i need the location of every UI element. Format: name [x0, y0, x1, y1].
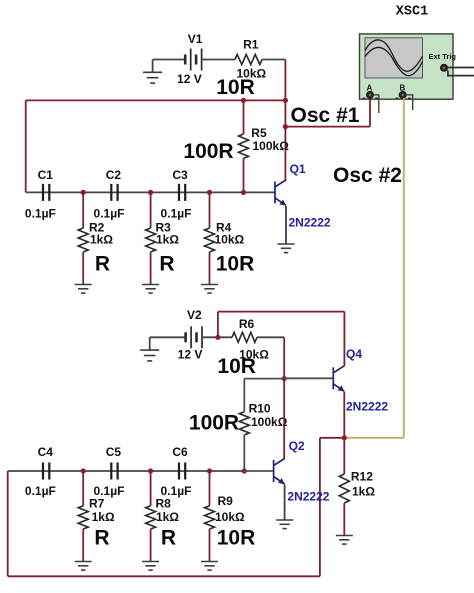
junction C4/R7	[81, 468, 86, 473]
svg-text:10R: 10R	[217, 355, 256, 378]
svg-text:10kΩ: 10kΩ	[215, 510, 245, 524]
svg-text:1kΩ: 1kΩ	[156, 510, 179, 524]
svg-text:100kΩ: 100kΩ	[251, 415, 288, 429]
wire battery V2 to R6	[202, 336, 232, 338]
wire capacitor row oscillator 2	[8, 470, 245, 472]
junction C6/R9	[207, 468, 212, 473]
pin A minus stub	[373, 95, 379, 113]
svg-text:R9: R9	[218, 494, 234, 508]
svg-text:12 V: 12 V	[178, 348, 203, 362]
svg-text:2N2222: 2N2222	[346, 400, 388, 414]
svg-text:10kΩ: 10kΩ	[215, 233, 245, 247]
wire Q4 base	[284, 377, 333, 379]
wire V2 ground to battery	[150, 336, 186, 338]
junction rail / R5	[241, 98, 246, 103]
junction Q4 emitter / R12 / feedback	[342, 435, 347, 440]
junction C5/R8	[148, 468, 153, 473]
resistor R2	[82, 192, 84, 228]
battery V1	[185, 49, 201, 71]
svg-text:Osc #2: Osc #2	[333, 164, 402, 187]
svg-text:R5: R5	[251, 126, 267, 140]
svg-text:C1: C1	[38, 168, 54, 182]
svg-text:1kΩ: 1kΩ	[156, 233, 179, 247]
resistor R9	[209, 471, 211, 506]
terminal Ext Trig	[441, 64, 448, 71]
resistor R10	[243, 379, 245, 412]
wire R6 drop to base node	[283, 337, 285, 378]
ground symbol for V2	[140, 350, 159, 361]
wire emitter node to feedback corner	[320, 437, 344, 439]
svg-text:0.1µF: 0.1µF	[25, 207, 56, 221]
scope trace B	[365, 47, 423, 75]
scope trace A	[365, 40, 423, 71]
junction R10/Q2 base	[242, 468, 247, 473]
junction rail / collector column	[283, 98, 288, 103]
junction C1/R2	[81, 190, 86, 195]
wire Q1 base	[244, 191, 276, 193]
capacitor C4	[43, 463, 49, 480]
svg-text:R10: R10	[249, 402, 271, 416]
svg-text:100kΩ: 100kΩ	[253, 139, 290, 153]
svg-text:R8: R8	[156, 497, 172, 511]
ground battery V1	[152, 60, 154, 73]
resistor R8	[150, 471, 152, 506]
resistor R12	[343, 438, 345, 474]
svg-text:C5: C5	[106, 445, 122, 459]
pin B minus stub	[406, 95, 413, 110]
wire feedback left vertical oscillator 2	[7, 471, 9, 576]
pin ext trig plus	[448, 67, 474, 69]
svg-text:Q4: Q4	[346, 347, 362, 361]
resistor R5	[243, 100, 245, 134]
wire Q4 emitter drop	[343, 392, 345, 438]
wire rail2 riser	[217, 312, 219, 338]
capacitor C2	[111, 184, 117, 201]
wire scope B orange drop	[403, 98, 405, 438]
svg-text:100R: 100R	[183, 140, 233, 163]
svg-text:0.1µF: 0.1µF	[25, 484, 56, 498]
svg-text:C4: C4	[38, 445, 54, 459]
svg-text:R1: R1	[243, 38, 259, 52]
resistor R4	[209, 192, 211, 228]
svg-text:C3: C3	[172, 168, 188, 182]
svg-text:Osc #1: Osc #1	[291, 104, 360, 127]
svg-text:12 V: 12 V	[177, 72, 202, 86]
transistor Q2	[274, 459, 285, 485]
battery V2	[186, 326, 202, 348]
ground symbol for V1	[143, 72, 162, 83]
svg-text:R7: R7	[89, 497, 105, 511]
resistor R1	[235, 55, 262, 65]
svg-text:1kΩ: 1kΩ	[352, 485, 375, 499]
svg-text:2N2222: 2N2222	[289, 216, 331, 230]
svg-text:R: R	[95, 253, 110, 276]
transistor Q1	[275, 180, 286, 206]
ground R9	[201, 562, 218, 571]
ground R8	[142, 562, 159, 571]
svg-text:0.1µF: 0.1µF	[94, 207, 125, 221]
wire feedback vertical oscillator 2	[319, 438, 321, 577]
wire Q4 collector drop	[343, 312, 345, 366]
capacitor C3	[179, 184, 185, 201]
oscilloscope XSC1	[360, 34, 474, 113]
svg-text:10R: 10R	[216, 253, 255, 276]
wire V+ feedback rail oscillator 1	[26, 99, 286, 101]
ground R7	[75, 562, 92, 571]
capacitor C5	[111, 463, 117, 480]
svg-text:0.1µF: 0.1µF	[161, 207, 192, 221]
tiny plus minus marks B	[396, 97, 399, 99]
wire base node to R10	[244, 378, 284, 380]
wire V+ rail oscillator 2	[218, 311, 345, 313]
svg-text:R: R	[94, 527, 109, 550]
svg-text:V2: V2	[187, 308, 202, 322]
svg-text:R: R	[159, 253, 174, 276]
transistor Q4	[333, 366, 344, 392]
resistor R3	[150, 192, 152, 228]
wire Q2 emitter to ground	[284, 485, 286, 521]
junction base node Q4	[282, 376, 287, 381]
wire capacitor row oscillator 1	[26, 191, 244, 193]
terminal A	[367, 92, 374, 99]
junction Q4 emitter node top copy	[342, 435, 347, 440]
svg-text:V1: V1	[188, 32, 203, 46]
ground R3	[142, 285, 159, 294]
svg-text:10R: 10R	[216, 76, 255, 99]
capacitor C6	[179, 463, 185, 480]
ground Q1 emitter	[278, 244, 295, 253]
svg-text:C2: C2	[106, 168, 122, 182]
junction V2+/rail2	[215, 335, 220, 340]
wire battery V1 to R1	[202, 59, 235, 61]
ground Q2 emitter	[276, 520, 293, 529]
svg-text:R: R	[161, 527, 176, 550]
svg-text:Ext Trig: Ext Trig	[429, 52, 457, 61]
svg-text:Q2: Q2	[289, 439, 305, 453]
ground battery V2	[149, 337, 151, 350]
resistor R7	[82, 471, 84, 506]
wire V1 ground to battery	[153, 59, 186, 61]
wire feedback bottom rail oscillator 2	[8, 575, 320, 577]
svg-text:XSC1: XSC1	[396, 5, 428, 20]
junction Osc #1 tap	[283, 124, 288, 129]
terminal B	[399, 92, 406, 99]
ground R2	[75, 285, 92, 294]
wire Osc #1 tap to scope A	[285, 126, 370, 128]
svg-text:2N2222: 2N2222	[287, 490, 329, 504]
ground R12	[336, 536, 353, 545]
wire collector column vertical	[284, 60, 286, 181]
svg-text:R6: R6	[239, 317, 255, 331]
svg-text:100R: 100R	[189, 412, 239, 435]
junction C3/R4	[207, 190, 212, 195]
ground R4	[201, 285, 218, 294]
wire Q2 collector column	[283, 379, 285, 459]
svg-text:R12: R12	[351, 470, 373, 484]
svg-text:C6: C6	[172, 445, 188, 459]
tiny plus minus marks A	[363, 97, 366, 99]
wire Q2 base	[244, 470, 273, 472]
svg-text:Q1: Q1	[290, 162, 306, 176]
pin ext trig minus	[448, 70, 474, 75]
svg-text:1kΩ: 1kΩ	[90, 233, 113, 247]
wire R1 to collector column	[262, 59, 285, 61]
resistor R6	[232, 332, 257, 342]
capacitor C1	[43, 184, 49, 201]
svg-text:10R: 10R	[217, 527, 256, 550]
wire Q1 emitter to ground	[285, 206, 287, 244]
junction C2/R3	[148, 190, 153, 195]
junction R5/Q1 base	[241, 190, 246, 195]
wire left feedback vertical oscillator 1	[25, 100, 27, 192]
svg-text:1kΩ: 1kΩ	[92, 510, 115, 524]
